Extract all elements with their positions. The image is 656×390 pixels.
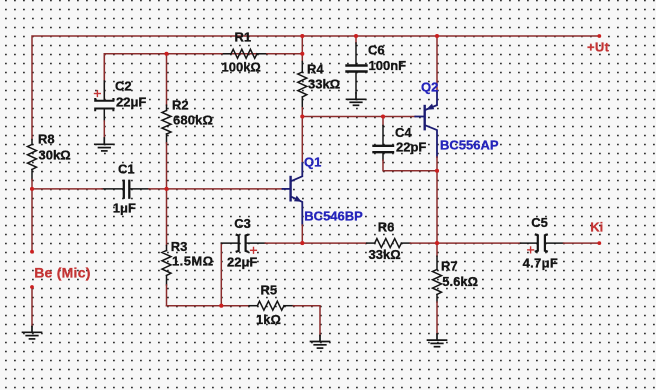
wire R1 right (267, 53, 302, 55)
wire Q1 emitter down (301, 225, 303, 243)
node C3 bottom (219, 304, 223, 308)
svg-text:R2: R2 (172, 97, 189, 112)
transistor Q2 (415, 92, 437, 157)
wire main vertical x=302.3 top (301, 36, 303, 62)
svg-text:22μF: 22μF (227, 255, 257, 270)
svg-text:R1: R1 (235, 29, 252, 44)
svg-text:BC556AP: BC556AP (440, 138, 499, 153)
wire mic row y=188.9 (32, 188, 102, 190)
wire node to Q1 collector (301, 117, 303, 164)
wire R2 branch x=166.5 (166, 54, 168, 105)
wire R2 to C1 row (166, 143, 168, 189)
node C1 right (164, 187, 168, 191)
labels black (38, 29, 558, 327)
endpoint Ki (597, 241, 601, 245)
endpoint mic lower (30, 285, 34, 289)
svg-text:C6: C6 (368, 42, 385, 57)
capacitor C2 plates (95, 99, 113, 110)
node rail Q2 (435, 34, 439, 38)
capacitor C6 plates (347, 66, 367, 72)
svg-text:Be (Mic): Be (Mic) (34, 265, 90, 281)
svg-text:1μF: 1μF (113, 200, 136, 215)
resistor R6 (367, 239, 411, 248)
transistor Q1 (283, 163, 303, 225)
svg-text:R7: R7 (441, 259, 458, 274)
plus C5 (528, 247, 534, 253)
svg-text:C2: C2 (115, 78, 132, 93)
capacitor C5 leads (521, 242, 564, 244)
wire top rail y=36 (32, 36, 599, 140)
wire R8 to node (31, 180, 33, 252)
svg-text:C3: C3 (234, 216, 251, 231)
plus C3 (251, 247, 257, 253)
svg-text:4.7μF: 4.7μF (523, 255, 558, 270)
resistor R4 (298, 62, 307, 108)
svg-text:33kΩ: 33kΩ (369, 247, 401, 262)
wire R7 top (436, 243, 438, 256)
plus C2 (95, 91, 101, 97)
capacitor C3 plates (237, 235, 248, 252)
ground (C6) (347, 93, 366, 105)
svg-text:C5: C5 (531, 215, 548, 230)
labels blue (304, 80, 499, 224)
wire R6 to node (410, 242, 437, 244)
capacitor C2 leads (103, 54, 105, 81)
svg-text:22μF: 22μF (116, 94, 146, 109)
svg-text:33kΩ: 33kΩ (308, 76, 340, 91)
capacitor C3 leads (221, 242, 265, 244)
wire R3 to bottom row (166, 285, 168, 306)
svg-text:100nF: 100nF (369, 58, 407, 73)
wire Q2 collector down (436, 157, 438, 243)
node rail R4 (300, 34, 304, 38)
resistor R8 (28, 140, 37, 180)
svg-text:30kΩ: 30kΩ (39, 147, 71, 162)
svg-text:C1: C1 (118, 161, 135, 176)
wire base row y=116.5 to Q2 (302, 116, 415, 118)
capacitor C5 plates (536, 235, 547, 252)
wire second rail y=53.8 (104, 54, 302, 101)
ground (C2) (95, 138, 114, 151)
wire C3 to Q1 emitter node (265, 242, 302, 244)
svg-text:R8: R8 (38, 131, 55, 146)
Q2 emitter arrow (426, 104, 434, 110)
wire C1 row to R3 (166, 189, 168, 246)
svg-text:1.5MΩ: 1.5MΩ (172, 253, 214, 268)
wire C4 bottom to collector (383, 160, 437, 171)
Q1 emitter arrow (294, 196, 302, 202)
svg-text:5.6kΩ: 5.6kΩ (442, 274, 478, 289)
endpoint mic upper (30, 250, 34, 254)
node R1 right (300, 52, 304, 56)
wire R1 left (167, 53, 223, 55)
svg-text:100kΩ: 100kΩ (222, 59, 261, 74)
node mic row left (30, 187, 34, 191)
svg-text:680kΩ: 680kΩ (173, 112, 213, 127)
wire C1 to Q1 base (149, 188, 283, 190)
capacitor C4 leads (382, 126, 384, 161)
wire R5 to ground corner (293, 306, 320, 336)
svg-text:R6: R6 (378, 219, 395, 234)
ground (R7) (428, 334, 447, 347)
wire C3 branch vertical x=221.3 (220, 243, 222, 306)
wire Q2 emitter rail x=437 (436, 36, 438, 92)
svg-text:C4: C4 (395, 125, 412, 140)
svg-text:1kΩ: 1kΩ (256, 312, 281, 327)
capacitor C1 plates (124, 181, 130, 198)
capacitor C6 lead top (355, 36, 357, 43)
node C4 bottom (435, 169, 439, 173)
wire R6 row left (302, 242, 366, 244)
capacitor C4 plates (374, 146, 394, 152)
capacitor C1 leads (102, 188, 149, 190)
wire node to C5 (437, 242, 521, 244)
resistor R3 (162, 246, 171, 286)
svg-text:Ki: Ki (590, 220, 603, 235)
ground (left, mic) (23, 327, 42, 339)
svg-text:Q2: Q2 (421, 80, 438, 95)
wire C5 to Ki (564, 242, 600, 244)
svg-text:R3: R3 (171, 239, 188, 254)
wire Be(Mic) lower segment (31, 287, 33, 327)
ground (R5) (311, 336, 330, 349)
node rail C6 (354, 34, 358, 38)
node R2 top (164, 52, 168, 56)
wire R4 to node y=116.5 (301, 108, 303, 117)
svg-text:BC546BP: BC546BP (304, 208, 363, 223)
svg-text:22pF: 22pF (396, 139, 426, 154)
resistor R7 (433, 256, 442, 302)
wire R7 to ground (436, 302, 438, 334)
node R4 bottom (300, 114, 304, 118)
endpoint +Ut (597, 34, 601, 38)
svg-text:R5: R5 (261, 283, 278, 298)
resistor R1 leads (222, 49, 267, 58)
svg-text:Q1: Q1 (304, 154, 321, 169)
wire bottom row y=305.7 (167, 305, 250, 307)
svg-text:+Ut: +Ut (587, 39, 610, 54)
wire C2 to ground (103, 121, 105, 138)
resistor R5 (249, 301, 293, 310)
svg-text:R4: R4 (307, 61, 324, 76)
node Q1 emitter (300, 241, 304, 245)
wire C4 branch top (382, 117, 384, 126)
resistor R2 (162, 105, 171, 143)
node R6 right (435, 241, 439, 245)
labels red (34, 39, 609, 280)
node C4 top (381, 114, 385, 118)
